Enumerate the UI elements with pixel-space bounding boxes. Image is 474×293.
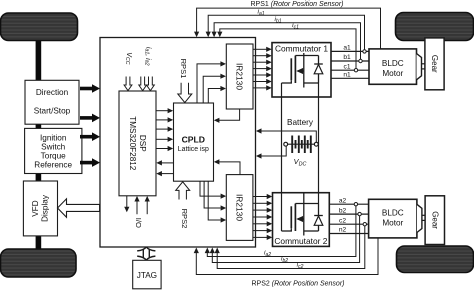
wire RPS1 sensor line xyxy=(194,8,381,49)
svg-text:n2: n2 xyxy=(339,227,347,234)
BLDC motor 2 xyxy=(369,199,426,238)
wire IR2130-1 to Commutator1 3 xyxy=(253,60,272,65)
svg-text:RPS2: RPS2 xyxy=(180,209,189,229)
JTAG double arrow xyxy=(137,247,155,260)
controller board outline xyxy=(100,38,256,248)
wire phase c2 xyxy=(329,217,368,226)
svg-text:a2: a2 xyxy=(339,197,347,204)
wire IR2130-2 to Commutator2 7 xyxy=(253,235,272,240)
wire phase b2 xyxy=(329,207,368,216)
wire IR2130-2 to Commutator2 5 xyxy=(253,221,272,226)
gate driver IR2130 (1) xyxy=(226,44,253,109)
svg-text:VFD: VFD xyxy=(31,200,40,216)
svg-text:Lattice isp: Lattice isp xyxy=(178,146,209,153)
commutator 2 pin to battery left xyxy=(281,193,283,231)
svg-text:TMS320F2812: TMS320F2812 xyxy=(128,116,137,171)
wire IR2130-2 fault to CPLD xyxy=(214,159,240,174)
wire IR2130-1 to Commutator1 2 xyxy=(253,53,272,58)
wheel rear-left xyxy=(1,249,77,277)
svg-text:BLDC: BLDC xyxy=(382,59,404,68)
svg-text:a1: a1 xyxy=(343,45,351,52)
wire I/O in 1 xyxy=(134,196,139,214)
svg-text:ib1: ib1 xyxy=(274,16,281,24)
commutator 1 box xyxy=(272,43,331,97)
svg-text:RPS2 (Rotor Position Sensor): RPS2 (Rotor Position Sensor) xyxy=(252,281,345,288)
JTAG box xyxy=(133,260,161,289)
wire Start/Stop to DSP board xyxy=(80,116,93,120)
svg-text:Display: Display xyxy=(41,194,50,222)
svg-text:RPS1: RPS1 xyxy=(179,59,188,79)
power MOSFET + diode (commutator 2) xyxy=(282,193,323,236)
gate driver IR2130 (2) xyxy=(226,175,253,241)
wire I/O in 2 xyxy=(145,196,150,214)
svg-text:ia2: ia2 xyxy=(264,250,271,258)
svg-text:Battery: Battery xyxy=(287,118,314,127)
wire CPLD to IR2130-1 3 xyxy=(208,86,226,103)
wire ia1 feedback xyxy=(206,15,365,50)
wire DSP to CPLD 1 xyxy=(156,108,173,113)
wire CPLD to IR2130-1 2 xyxy=(203,74,226,103)
power MOSFET + diode (commutator 1) xyxy=(282,53,323,88)
wire RPS2 sensor line xyxy=(194,238,378,275)
wire phase c1 xyxy=(331,63,369,72)
svg-text:Ignition: Ignition xyxy=(40,133,67,142)
svg-text:Direction: Direction xyxy=(36,88,69,97)
block Direction/Start-Stop xyxy=(25,80,79,124)
wire IR2130-2 to Commutator2 1 xyxy=(253,194,272,199)
svg-text:c1: c1 xyxy=(344,63,351,70)
wire CPLD to DSP 2 xyxy=(156,171,173,176)
svg-text:RPS1 (Rotor Position Sensor): RPS1 (Rotor Position Sensor) xyxy=(251,1,344,8)
Vcc input arrow into DSP xyxy=(124,77,132,91)
wire IR2130-2 to Commutator2 3 xyxy=(253,208,272,213)
block Ignition Switch Torque Reference xyxy=(25,128,82,173)
svg-text:BLDC: BLDC xyxy=(382,208,404,217)
svg-text:VCC: VCC xyxy=(124,52,132,64)
battery rail left xyxy=(281,97,283,193)
wire phase a1 xyxy=(331,45,369,54)
wheel front-left xyxy=(1,13,78,41)
svg-text:Motor: Motor xyxy=(382,69,403,78)
axle (left drive shaft) xyxy=(36,30,42,255)
wire ib1 feedback xyxy=(212,23,361,60)
svg-text:ic2: ic2 xyxy=(297,262,304,270)
svg-text:Commutator 2: Commutator 2 xyxy=(274,236,327,246)
wire IR2130-1 to Commutator1 7 xyxy=(253,85,272,90)
svg-text:Switch: Switch xyxy=(41,142,66,151)
RPS2 arrow into CPLD (hollow) xyxy=(176,182,190,200)
wire IR2130-2 to Commutator2 2 xyxy=(253,201,272,206)
commutator 1 pin to battery right xyxy=(318,83,320,97)
wire ia2 feedback xyxy=(205,206,356,257)
wire CPLD to IR2130-1 1 xyxy=(197,61,226,103)
DSP TMS320F2812 xyxy=(119,91,156,196)
wire battery + to board Vdc xyxy=(256,128,316,142)
svg-text:Motor: Motor xyxy=(382,218,403,227)
BLDC motor 1 xyxy=(369,49,425,84)
wire phase b1 xyxy=(331,54,369,63)
block VFD Display xyxy=(23,181,57,236)
wire IR2130-1 fault to CPLD xyxy=(214,109,240,123)
svg-text:ia1, ia2: ia1, ia2 xyxy=(144,47,152,66)
wire IR2130-1 to Commutator1 4 xyxy=(253,66,272,71)
wire Direction to DSP board xyxy=(80,87,93,91)
commutator 1 pin to battery left xyxy=(281,83,283,97)
svg-text:CPLD: CPLD xyxy=(182,134,205,144)
wire Ignition Switch to DSP board xyxy=(80,135,93,139)
svg-text:DSP: DSP xyxy=(138,135,147,152)
CPLD Lattice isp xyxy=(174,103,214,181)
wire DSP to CPLD 5 xyxy=(156,146,173,151)
wire ic1 feedback xyxy=(217,29,356,69)
RPS1 arrow into CPLD (hollow) xyxy=(178,83,192,103)
wire battery - to board xyxy=(256,146,286,159)
svg-text:Gear: Gear xyxy=(430,211,439,229)
wire IR2130-1 to Commutator1 5 xyxy=(253,72,272,77)
wire CPLD to IR2130-2 2 xyxy=(204,181,226,210)
svg-text:Reference: Reference xyxy=(34,160,72,169)
svg-text:n1: n1 xyxy=(343,72,351,79)
ia1 current input arrow into DSP xyxy=(139,77,147,91)
wire CPLD to IR2130-2 1 xyxy=(200,181,226,199)
wire Torque Reference to DSP board xyxy=(80,161,93,165)
svg-text:b1: b1 xyxy=(343,54,351,61)
wire phase a2 xyxy=(329,197,368,206)
svg-text:IR2130: IR2130 xyxy=(235,194,245,221)
gear box 2 xyxy=(425,196,444,245)
ia2 current input arrow into DSP xyxy=(147,77,155,91)
svg-text:Torque: Torque xyxy=(41,151,66,160)
wire IR2130-1 to Commutator1 1 xyxy=(253,47,272,52)
battery rail right xyxy=(318,97,320,193)
wire ib2 feedback xyxy=(210,216,360,263)
wire DSP to CPLD 2 xyxy=(156,117,173,122)
gear box 1 xyxy=(425,38,444,90)
wheel rear-right xyxy=(397,246,474,273)
wire DSP to CPLD 4 xyxy=(156,137,173,142)
wire ic2 feedback xyxy=(215,226,365,269)
wheel front-right xyxy=(396,13,474,41)
svg-text:Gear: Gear xyxy=(430,55,439,73)
wire board to VFD Display (hollow arrow) xyxy=(58,199,100,218)
commutator 2 box xyxy=(273,193,330,247)
wire IR2130-2 to Commutator2 6 xyxy=(253,228,272,233)
svg-text:b2: b2 xyxy=(339,207,347,214)
wire IR2130-1 to Commutator1 6 xyxy=(253,79,272,84)
wire CPLD to DSP 1 xyxy=(156,160,173,165)
svg-text:Commutator 1: Commutator 1 xyxy=(275,43,328,53)
svg-text:I/O: I/O xyxy=(134,218,143,228)
wire CPLD to IR2130-2 3 xyxy=(208,181,226,222)
svg-text:Start/Stop: Start/Stop xyxy=(34,106,71,115)
wire phase n2 xyxy=(329,227,368,234)
wire DSP I/O out xyxy=(124,196,129,213)
battery cells symbol xyxy=(284,136,319,154)
svg-text:ic1: ic1 xyxy=(292,22,299,30)
wire DSP to CPLD 3 xyxy=(156,127,173,132)
svg-text:ia1: ia1 xyxy=(257,9,264,17)
wire IR2130-2 to Commutator2 4 xyxy=(253,214,272,219)
svg-text:IR2130: IR2130 xyxy=(235,63,245,90)
svg-text:c2: c2 xyxy=(339,217,346,224)
svg-text:ib2: ib2 xyxy=(281,256,288,264)
wire phase n1 xyxy=(331,72,369,79)
commutator 2 pin to battery right xyxy=(318,193,320,204)
svg-text:JTAG: JTAG xyxy=(137,271,157,280)
